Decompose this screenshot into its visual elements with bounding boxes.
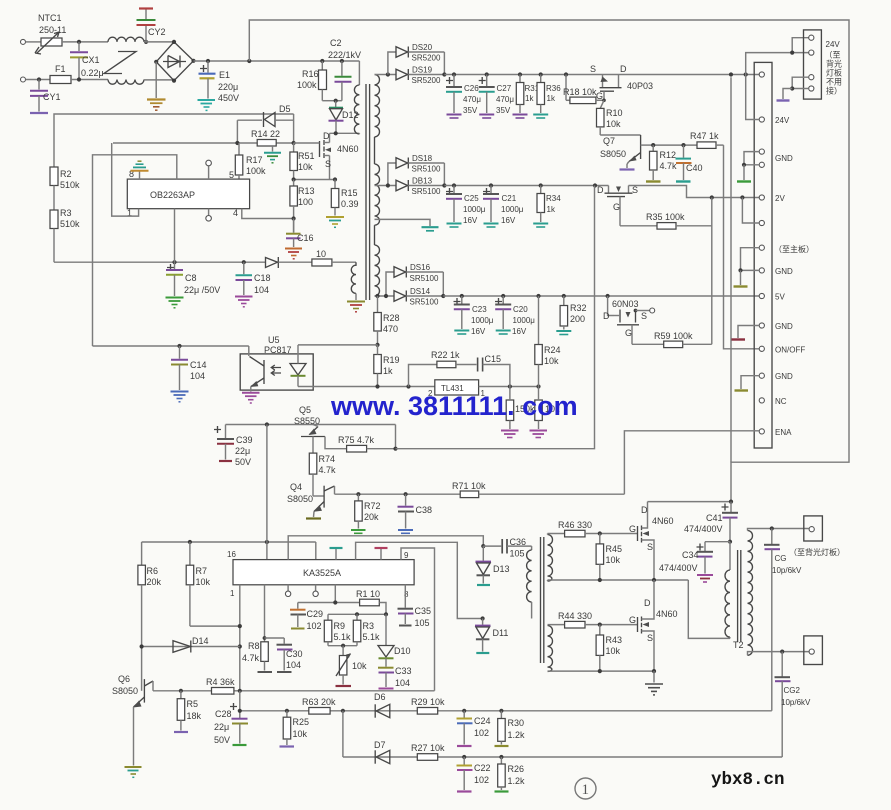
wire join — [443, 163, 445, 186]
svg-text:16V: 16V — [463, 216, 478, 225]
svg-text:GND: GND — [775, 372, 793, 381]
svg-text:1: 1 — [582, 782, 590, 798]
node CY1 — [37, 77, 41, 81]
cap pin (red) — [375, 548, 388, 560]
svg-text:C34: C34 — [682, 550, 699, 560]
wire pin4 — [242, 209, 294, 219]
resistor R24 10k — [535, 296, 561, 387]
svg-text:1k: 1k — [547, 94, 556, 103]
resistor R27 10k — [411, 743, 445, 760]
pin circle (pin3) — [313, 585, 318, 597]
resistor R2 510k — [50, 167, 80, 210]
svg-text:G: G — [625, 328, 632, 338]
svg-text:10k: 10k — [544, 356, 559, 366]
resistor R45 10k — [596, 534, 622, 581]
svg-text:35V: 35V — [463, 106, 478, 115]
svg-text:450V: 450V — [218, 93, 239, 103]
ground (GND c) — [734, 270, 748, 286]
resistor R4 36k — [206, 677, 235, 694]
svg-text:R43: R43 — [606, 635, 623, 645]
wire R47 to ON/OFF — [724, 145, 760, 349]
svg-text:R17: R17 — [246, 155, 263, 165]
svg-text:22μ /50V: 22μ /50V — [184, 285, 220, 295]
capacitor C23 1000u/16V — [454, 296, 494, 336]
wire — [144, 79, 174, 81]
node — [518, 72, 522, 76]
svg-text:24V: 24V — [826, 40, 841, 49]
node R43 — [598, 623, 602, 627]
node — [508, 384, 512, 388]
optocoupler U5 PC817 — [240, 335, 313, 403]
resistor R1 10 — [356, 589, 386, 614]
svg-text:CG: CG — [775, 554, 787, 563]
transformer T1 secondary winding — [375, 75, 380, 297]
svg-text:22μ: 22μ — [235, 446, 250, 456]
svg-text:0.39: 0.39 — [341, 199, 359, 209]
resistor R3 5.1k — [353, 614, 380, 645]
svg-text:R1 10: R1 10 — [356, 589, 380, 599]
svg-text:CY1: CY1 — [43, 92, 61, 102]
resistor R22 1k — [409, 350, 477, 387]
svg-text:SR5100: SR5100 — [410, 274, 439, 283]
capacitor C40 — [676, 145, 703, 181]
ground (below R14) — [264, 146, 281, 163]
line lower gnd — [548, 670, 655, 672]
svg-text:C2: C2 — [330, 38, 342, 48]
svg-text:R45: R45 — [606, 544, 623, 554]
svg-text:50V: 50V — [214, 735, 230, 745]
svg-text:105: 105 — [510, 549, 525, 559]
wire PC817 anode line — [298, 344, 378, 346]
pin 4 — [809, 86, 814, 91]
svg-text:100k: 100k — [246, 166, 266, 176]
svg-text:C8: C8 — [185, 273, 197, 283]
cap pin (teal) — [330, 548, 343, 560]
resistor R13 100 — [290, 180, 315, 233]
capacitor CX1 — [70, 42, 104, 80]
svg-text:1k: 1k — [383, 366, 393, 376]
resistor R12 4.7k — [646, 145, 677, 181]
resistor R30 1.2k — [495, 711, 526, 746]
bridge rectifier — [154, 40, 196, 83]
capacitor C15 — [478, 354, 510, 387]
pin circle (bottom) — [206, 209, 212, 221]
resistor R44 330 — [548, 611, 638, 628]
diode D6 — [374, 692, 390, 718]
capacitor C30 104 — [265, 638, 303, 672]
svg-text:SR5200: SR5200 — [412, 76, 441, 85]
capacitor C39 22u/50V — [214, 425, 253, 468]
line C14 — [93, 345, 249, 347]
node — [489, 183, 493, 187]
node C34 — [728, 540, 732, 544]
resistor R10 10k — [597, 100, 623, 135]
wire — [71, 79, 108, 81]
wire primary bottom — [330, 132, 360, 134]
node D12 — [334, 99, 338, 103]
svg-text:R16: R16 — [302, 69, 319, 79]
resistor R16 100k — [297, 61, 336, 101]
capacitor C33 104 — [378, 658, 412, 688]
node C28 — [238, 689, 242, 693]
node C24 — [462, 709, 466, 713]
fuse F1 — [50, 64, 71, 84]
svg-text:104: 104 — [254, 285, 269, 295]
node — [384, 612, 388, 616]
page number circle — [575, 778, 596, 799]
wire B+ vertical feed — [730, 77, 732, 462]
wire — [26, 79, 51, 81]
svg-text:C15: C15 — [485, 354, 502, 364]
svg-text:Q6: Q6 — [118, 674, 130, 684]
svg-text:1: 1 — [230, 589, 235, 598]
line C41 — [648, 501, 732, 503]
line above IC — [142, 541, 316, 543]
node — [536, 294, 540, 298]
svg-text:470μ: 470μ — [496, 95, 514, 104]
svg-text:S8050: S8050 — [287, 494, 313, 504]
diode DS20 SR5200 — [396, 43, 444, 63]
resistor R9 5.1k — [324, 614, 351, 645]
ground (GND pair) — [737, 165, 751, 182]
svg-text:5.1k: 5.1k — [363, 632, 381, 642]
svg-text:NTC1: NTC1 — [38, 13, 62, 23]
pin GND a — [759, 149, 764, 154]
diode D5 — [237, 104, 293, 143]
wire board/GND pin — [741, 248, 760, 271]
svg-text:D14: D14 — [192, 636, 209, 646]
node — [740, 195, 744, 199]
svg-text:R15: R15 — [341, 188, 358, 198]
svg-text:R34: R34 — [546, 194, 561, 203]
svg-text:1000μ: 1000μ — [471, 316, 494, 325]
svg-text:104: 104 — [395, 678, 410, 688]
svg-text:CG2: CG2 — [784, 686, 801, 695]
svg-text:D5: D5 — [279, 104, 291, 114]
svg-text:2V: 2V — [775, 194, 785, 203]
svg-text:50V: 50V — [235, 457, 251, 467]
svg-text:R27 10k: R27 10k — [411, 743, 445, 753]
svg-text:C27: C27 — [497, 84, 512, 93]
resistor R31 1k — [513, 75, 540, 119]
connector CN1 — [754, 62, 772, 448]
wire join — [442, 272, 444, 296]
node D11 — [481, 616, 485, 620]
capacitor CG 10p/6kV — [764, 529, 802, 711]
transistor Q7 S8050 — [600, 135, 653, 170]
svg-text:R47 1k: R47 1k — [690, 131, 719, 141]
svg-text:R5: R5 — [187, 699, 199, 709]
node — [442, 72, 446, 76]
wire ENA — [624, 431, 759, 494]
svg-text:C26: C26 — [464, 84, 479, 93]
node R25 — [285, 709, 289, 713]
node: AC line1 / CX1 junction — [77, 40, 81, 44]
svg-text:E1: E1 — [219, 70, 230, 80]
node — [334, 131, 338, 135]
diode DS14 SR5100 — [375, 287, 444, 307]
pin circle (pin2) — [285, 585, 290, 597]
svg-text:C24: C24 — [474, 716, 491, 726]
svg-text:474/400V: 474/400V — [659, 563, 698, 573]
pin 24V rail — [759, 72, 764, 77]
node: CY2 junction — [144, 40, 148, 44]
ground (R15) — [326, 217, 344, 227]
svg-text:102: 102 — [474, 728, 489, 738]
ground (secondary ct) — [422, 227, 439, 231]
wire GND pair — [744, 152, 759, 165]
line TL431 ref — [298, 386, 435, 388]
svg-text:16: 16 — [227, 550, 236, 559]
line 24V rail — [444, 74, 759, 76]
resistor R17 100k — [235, 143, 266, 179]
thermistor NTC1 — [35, 13, 66, 54]
node pin2/C8 — [172, 260, 176, 264]
svg-text:GND: GND — [775, 322, 793, 331]
svg-text:5.1k: 5.1k — [334, 632, 352, 642]
node — [738, 268, 742, 272]
choke winding lower — [108, 80, 144, 85]
svg-text:R22 1k: R22 1k — [431, 350, 460, 360]
svg-text:D10: D10 — [394, 646, 411, 656]
line R1 — [298, 602, 360, 604]
svg-text:9: 9 — [404, 551, 409, 560]
resistor R3 510k — [50, 208, 80, 262]
resistor R51 10k — [290, 143, 315, 180]
svg-text:D: D — [620, 64, 627, 74]
wire pin15 — [315, 542, 317, 560]
svg-text:S: S — [325, 159, 331, 169]
node — [460, 294, 464, 298]
ground (GND d) — [732, 338, 746, 340]
node C38 — [404, 492, 408, 496]
svg-text:C38: C38 — [416, 505, 433, 515]
node pin16 — [265, 540, 269, 544]
node — [598, 578, 602, 582]
svg-text:R19: R19 — [383, 355, 400, 365]
node — [452, 72, 456, 76]
svg-text:1.2k: 1.2k — [508, 776, 526, 786]
svg-text:16V: 16V — [501, 216, 516, 225]
svg-text:CX1: CX1 — [82, 55, 100, 65]
ground (GND e) — [735, 389, 749, 391]
node CG2 — [780, 650, 784, 654]
ground (inverter) — [645, 671, 663, 695]
svg-text:474/400V: 474/400V — [684, 524, 723, 534]
svg-text:10k: 10k — [293, 729, 308, 739]
transformer T1 aux winding — [351, 262, 356, 300]
node E1 — [206, 59, 210, 63]
transformer T3 secondary upper — [548, 534, 553, 582]
resistor R71 10k — [452, 481, 624, 498]
node — [77, 77, 81, 81]
wire secondary top tap — [375, 74, 397, 76]
svg-text:C25: C25 — [464, 194, 479, 203]
svg-text:G: G — [613, 202, 620, 212]
resistor R32 200 — [556, 296, 586, 335]
svg-text:4: 4 — [233, 208, 238, 218]
svg-text:（至: （至 — [825, 51, 841, 60]
svg-text:NC: NC — [775, 397, 787, 406]
resistor R15 0.39 — [331, 180, 358, 216]
node R16 — [320, 59, 324, 63]
svg-text:10p/6kV: 10p/6kV — [772, 566, 802, 575]
resistor R29 10k — [411, 697, 445, 714]
resistor 10 (vcc) — [312, 249, 356, 266]
svg-text:22μ: 22μ — [214, 722, 229, 732]
svg-text:D: D — [603, 311, 610, 321]
svg-text:10p/6kV: 10p/6kV — [781, 698, 811, 707]
svg-text:R4 36k: R4 36k — [206, 677, 235, 687]
svg-text:DS20: DS20 — [412, 43, 433, 52]
svg-text:U5: U5 — [268, 335, 280, 345]
svg-text:Q5: Q5 — [299, 405, 311, 415]
capacitor C35 105 — [398, 585, 432, 628]
wire B+ top loop to inverter — [249, 20, 849, 502]
node — [539, 72, 543, 76]
svg-text:DS16: DS16 — [410, 263, 431, 272]
svg-text:16V: 16V — [512, 327, 527, 336]
svg-text:R2: R2 — [60, 169, 72, 179]
node — [652, 578, 656, 582]
node — [355, 612, 359, 616]
node C22 — [462, 755, 466, 759]
svg-text:R51: R51 — [298, 151, 315, 161]
node — [564, 72, 568, 76]
diode D8 (vcc) — [266, 257, 312, 268]
capacitor CY2 — [137, 9, 166, 42]
node C2 — [340, 59, 344, 63]
node R28 tap — [375, 294, 379, 298]
wire secondary gnd tap — [375, 219, 431, 226]
svg-text:R59 100k: R59 100k — [654, 331, 693, 341]
wire — [26, 41, 42, 43]
node — [238, 624, 242, 628]
svg-text:C29: C29 — [307, 609, 324, 619]
MOSFET 60N03 — [603, 296, 655, 344]
node R72 — [356, 492, 360, 496]
svg-text:10k: 10k — [606, 646, 621, 656]
node — [539, 183, 543, 187]
svg-text:G: G — [629, 615, 636, 625]
svg-text:R46 330: R46 330 — [558, 520, 592, 530]
line R9/R3 — [328, 613, 386, 615]
line VCC — [54, 261, 266, 263]
diode D11 — [475, 619, 508, 654]
wire — [62, 41, 108, 43]
line 2V rail — [444, 185, 608, 187]
svg-text:1k: 1k — [547, 205, 556, 214]
svg-text:C20: C20 — [513, 305, 528, 314]
wire pin9 loop — [401, 548, 435, 691]
svg-text:R18 10k: R18 10k — [563, 87, 597, 97]
svg-text:222/1kV: 222/1kV — [328, 50, 361, 60]
IC TL431 — [428, 380, 486, 398]
svg-text:10k: 10k — [606, 555, 621, 565]
node — [375, 384, 379, 388]
node R5 — [179, 689, 183, 693]
svg-text:（至主板）: （至主板） — [774, 244, 814, 254]
svg-text:R29 10k: R29 10k — [411, 697, 445, 707]
node — [235, 141, 239, 145]
line R2R3 sense — [54, 114, 294, 167]
svg-text:102: 102 — [307, 621, 322, 631]
svg-text:R7: R7 — [196, 566, 208, 576]
resistor R6 20k — [138, 542, 162, 691]
diode D7 — [374, 740, 390, 764]
svg-text:ybx8.cn: ybx8.cn — [711, 770, 785, 790]
svg-text:4.7k: 4.7k — [242, 653, 260, 663]
svg-text:背光: 背光 — [826, 59, 842, 69]
svg-text:40P03: 40P03 — [627, 81, 653, 91]
node R30 — [499, 709, 503, 713]
svg-text:DS18: DS18 — [412, 154, 433, 163]
svg-text:D11: D11 — [493, 628, 509, 638]
node — [292, 177, 296, 181]
svg-text:接）: 接） — [826, 86, 842, 96]
svg-text:4N60: 4N60 — [337, 144, 359, 154]
line feedback1 — [240, 710, 772, 712]
node — [790, 86, 794, 90]
resistor R43 10k — [596, 625, 622, 672]
transistor Q4 S8050 — [287, 482, 335, 519]
svg-text:D: D — [644, 598, 651, 608]
resistor R8 4.7k — [242, 585, 272, 672]
node — [238, 644, 242, 648]
capacitor C28 22u/50V — [214, 691, 248, 745]
svg-text:C30: C30 — [286, 649, 303, 659]
wire — [792, 52, 809, 54]
svg-text:D: D — [641, 505, 648, 515]
resistor R18 10k — [563, 75, 604, 104]
line R14 — [113, 142, 294, 144]
resistor R72 20k — [351, 494, 381, 533]
pin GND c — [759, 268, 764, 273]
svg-text:1000μ: 1000μ — [501, 205, 524, 214]
pin 3 — [809, 75, 814, 80]
wire 2V to connector — [629, 186, 760, 198]
svg-text:R8: R8 — [248, 641, 260, 651]
capacitor C26 470u/35V — [446, 75, 481, 119]
node D6 — [341, 709, 345, 713]
svg-text:20k: 20k — [147, 577, 162, 587]
svg-text:R14 22: R14 22 — [251, 129, 280, 139]
svg-text:GND: GND — [775, 154, 793, 163]
wire pin16 — [266, 425, 268, 560]
line feedback2 — [343, 756, 782, 758]
pin 2 — [809, 50, 814, 55]
resistor R7 10k — [186, 542, 240, 626]
diode DB13 SR5100 — [375, 177, 445, 197]
svg-text:220μ: 220μ — [218, 82, 238, 92]
node pin4/R13 — [292, 216, 296, 220]
svg-text:R9: R9 — [334, 621, 346, 631]
svg-text:SR5100: SR5100 — [410, 298, 439, 307]
svg-text:T2: T2 — [733, 640, 744, 650]
capacitor C21 1000u/16V — [483, 186, 524, 228]
capacitor E1 220u/450V — [198, 61, 240, 110]
svg-text:24V: 24V — [775, 116, 790, 125]
svg-text:R10: R10 — [606, 108, 623, 118]
svg-text:S8050: S8050 — [600, 149, 626, 159]
node — [441, 294, 445, 298]
node CG — [770, 526, 774, 530]
wire hb mid to T2 — [688, 580, 730, 638]
svg-text:470: 470 — [383, 324, 398, 334]
choke core Z symbol — [104, 52, 136, 74]
node — [341, 644, 345, 648]
svg-text:S8050: S8050 — [112, 686, 138, 696]
